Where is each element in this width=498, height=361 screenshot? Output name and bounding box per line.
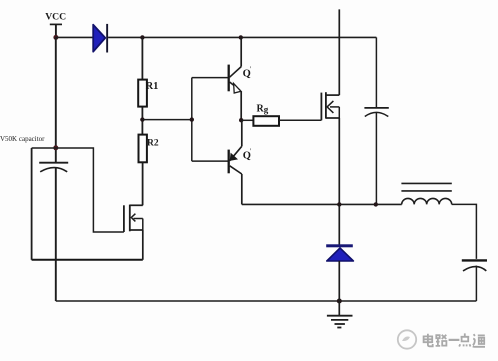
label R1 [146,81,159,92]
label Q1 [243,66,251,80]
wire mid rail Q2 collector to inductor [242,203,402,205]
MOSFET Q4 (right, N-channel) [321,92,339,120]
node dot mid rail / C1 [374,202,378,206]
label R2 [147,139,159,149]
wire VCC branch down left side [55,37,57,162]
wire rail corner down to capacitor C1 [375,37,377,107]
resistor Rg [253,116,279,126]
wire top rail D1 cathode to right corner [108,36,376,38]
resistor R2 [139,135,147,163]
svg-text:VCC: VCC [45,11,66,22]
inductor L1 winding [402,198,452,204]
wire left MOSFET source down [142,230,144,260]
svg-text:V50K capacitor: V50K capacitor [0,135,45,143]
node dot rail/R1 [140,35,144,39]
wire VCC to diode D1 anode [56,36,93,38]
diode D2 [326,204,353,301]
wire dot to left loop [32,147,56,149]
wire C3 down to bottom rail [55,167,57,301]
node dot base rail [190,117,194,121]
inductor L1 core [401,183,451,191]
node dot rail/Q1 collector [239,35,243,39]
MOSFET Q3 (left, N-channel) [124,205,143,232]
wire rail to R1 [141,37,143,79]
node dot emitter junction [239,118,243,122]
diode D1 [93,24,108,53]
wire inductor to right branch [452,204,477,259]
node dot ground junction [337,299,342,304]
wire right MOSFET drain up [338,9,340,95]
node dot left branch [53,145,58,150]
wire emitter junction to Rg [241,119,253,121]
capacitor C1 [364,108,388,117]
watermark logo circle [398,330,416,348]
capacitor C2 [462,260,487,271]
resistor R1 [138,80,147,107]
wire R2 to left MOSFET drain [142,162,144,205]
svg-text:R2: R2 [147,139,159,149]
svg-text:g: g [264,105,269,115]
wire base rail to Q1 base [192,77,228,79]
VCC label [45,11,66,22]
label Rg [257,104,269,115]
svg-text:': ' [250,66,251,74]
wire C2 to bottom rail [475,266,477,301]
svg-text:R1: R1 [146,81,159,92]
node dot mid rail / MOSFET source [337,202,341,206]
wire base rail to Q2 base [192,160,228,162]
wire left loop vertical [31,148,33,260]
watermark text top-left [0,135,45,143]
wire left loop bottom [32,259,143,261]
VCC power symbol [50,24,62,37]
node VCC junction dot [53,35,58,40]
node dot divider junction [140,117,144,121]
wire divider to base rail [142,119,191,121]
wire dot to gate plumbing [56,148,124,232]
ground [327,301,353,328]
wire bottom rail [56,300,477,302]
wire R1 to R2 [141,107,143,135]
capacitor C3 [39,163,68,172]
watermark text bottom-right [424,333,485,346]
wire C1 to mid rail [375,112,377,204]
transistor Q1 (NPN) [229,37,242,120]
wire Rg to right MOSFET gate [279,119,321,121]
label Q2 [243,148,251,162]
svg-text:': ' [250,148,251,156]
wire right MOSFET source down [338,118,340,204]
wire base rail vertical [191,78,193,162]
transistor Q2 (PNP) [229,120,242,204]
